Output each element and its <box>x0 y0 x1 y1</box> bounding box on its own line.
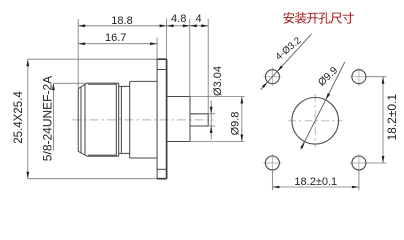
svg-text:16.7: 16.7 <box>105 32 126 44</box>
svg-text:4.8: 4.8 <box>171 13 186 25</box>
svg-text:18.2±0.1: 18.2±0.1 <box>385 94 399 141</box>
svg-text:18.2±0.1: 18.2±0.1 <box>294 176 337 188</box>
svg-text:5/8-24UNEF-2A: 5/8-24UNEF-2A <box>40 76 54 161</box>
svg-text:Ø3.04: Ø3.04 <box>212 66 224 96</box>
svg-text:Ø9.8: Ø9.8 <box>230 112 242 136</box>
svg-text:18.8: 18.8 <box>111 15 132 27</box>
svg-text:25.4X25.4: 25.4X25.4 <box>13 91 25 144</box>
svg-text:4: 4 <box>195 13 201 25</box>
